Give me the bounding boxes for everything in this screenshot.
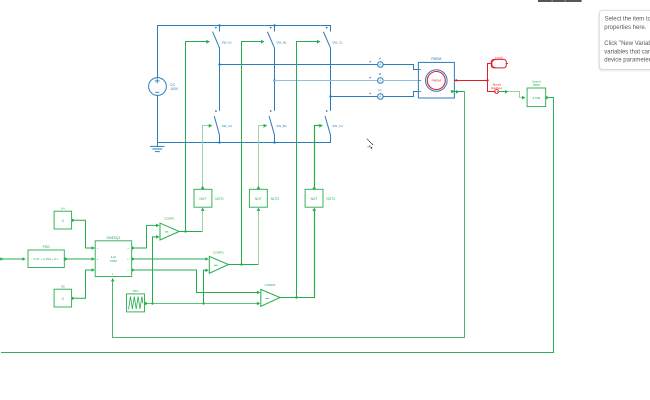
wire: K5 to sine block pin c (75, 270, 91, 298)
svg-text:NOT3: NOT3 (326, 197, 335, 201)
arrow: into NOT3 (312, 208, 316, 211)
wire: carrier line (148, 303, 256, 305)
node: carrier to COMP1 (151, 302, 153, 304)
switch SW_C4 (325, 110, 330, 142)
svg-text:SW_A1: SW_A1 (222, 40, 233, 44)
wire: COMP3 to NOT3 input (314, 211, 316, 297)
wire: top DC bus (158, 25, 331, 27)
svg-text:K5: K5 (61, 285, 65, 289)
wire: COMP2 up to SW_B1 gate (242, 42, 262, 265)
arrow: into COMP3 minus (257, 302, 260, 306)
svg-text:TRI1: TRI1 (132, 289, 139, 293)
wire: PMSM position output (454, 91, 465, 93)
svg-text:COMP2: COMP2 (213, 251, 224, 255)
arrow: SW_C4 gate (319, 124, 323, 128)
UI: tooltip text (604, 17, 650, 64)
svg-text:SW_C1: SW_C1 (332, 40, 343, 44)
arrow: K4 output (72, 219, 75, 223)
arrow: into COMP1 minus (156, 235, 159, 239)
svg-text:IA: IA (379, 56, 382, 60)
UI: tooltip panel shadow (598, 12, 650, 72)
svg-text:A: A (379, 79, 381, 83)
wire: K4 to sine block pin a (75, 220, 91, 248)
wire: phase A to sensor (220, 64, 378, 66)
svg-text:NOT1: NOT1 (215, 197, 224, 201)
svg-text:COMP3: COMP3 (265, 283, 276, 287)
controller PID1 (28, 250, 64, 268)
logic gate NOT2 (249, 189, 267, 207)
arrow: SW_A1 gate (206, 40, 210, 44)
node: carrier to COMP2 (202, 302, 204, 304)
wire: shaft up to load (488, 64, 492, 81)
UI: mouse cursor (367, 139, 373, 149)
node C phase junction (329, 95, 331, 97)
arrow: into sine block pin c (92, 268, 95, 272)
logic gate NOT3 (305, 189, 323, 207)
wire: carrier up to COMP1 minus (153, 237, 156, 304)
wire: COMP3 output (280, 297, 315, 299)
arrow: into COMP2 minus (205, 269, 208, 273)
wire: to speed RPM gain (light) (508, 92, 522, 98)
svg-text:0.01 + 0.15/s + 0.1: 0.01 + 0.15/s + 0.1 (34, 257, 59, 261)
wire: carrier up to COMP2 minus (204, 270, 206, 303)
wire: PMSM shaft to load (red) (454, 80, 487, 82)
arrow: SW_C1 gate (317, 40, 321, 44)
constant block K4 (54, 211, 72, 229)
svg-text:COMP1: COMP1 (164, 217, 175, 221)
motor PMSM inner circle (427, 72, 445, 90)
wire: COMP2 output (229, 264, 259, 266)
svg-text:PWM: PWM (110, 259, 118, 263)
wire: shaft down to speed sensor (488, 81, 495, 92)
comparator COMP3 (261, 289, 280, 306)
arrow: into sine block pin b (92, 257, 95, 261)
three-phase sine block SINESQ1 (95, 241, 132, 277)
wire: out b to COMP2 plus (135, 258, 205, 260)
wire: COMP1 output (179, 231, 202, 233)
node: top bus phase B junction (273, 24, 275, 26)
node: COMP1 out junction (184, 230, 186, 232)
switch SW_A4 (214, 110, 219, 142)
node A phase junction (218, 63, 220, 65)
svg-text:SW_C4: SW_C4 (332, 124, 343, 128)
arrow: SW_B4 gate (264, 124, 268, 128)
arrow: into sine block pin a (92, 246, 95, 250)
wire: DC+ to top bus (157, 26, 159, 78)
comparator COMP2 (209, 256, 228, 273)
arrow: SW_A4 gate (209, 124, 213, 128)
arrow: NOT1 output (201, 186, 205, 189)
arrow: into NOT2 (257, 208, 261, 211)
arrow: sine out b (132, 257, 135, 261)
wire: COMP3 up to SW_C1 gate (297, 42, 317, 298)
label Speed Rad/sec (491, 83, 503, 91)
svg-text:K4: K4 (61, 207, 65, 211)
wire: sensor IB to PMSM pin b (light) (383, 80, 418, 82)
node B phase junction (273, 79, 275, 81)
arrow: into gain block (522, 96, 525, 100)
wire: COMP1 to NOT1 input (202, 211, 204, 231)
wire: phase C to sensor (331, 96, 378, 98)
wire: bottom DC bus (158, 142, 331, 144)
svg-text:9.549: 9.549 (533, 96, 541, 100)
svg-text:SINESQ1: SINESQ1 (106, 236, 120, 240)
arrow: NOT3 output (312, 186, 316, 189)
wire: speed feedback down and across bottom (2, 98, 554, 353)
arrow: into PID (22, 257, 25, 261)
svg-text:NOT: NOT (311, 197, 318, 201)
svg-text:100V: 100V (170, 87, 179, 91)
svg-text:PMSM: PMSM (431, 57, 441, 61)
svg-text:Rad/sec: Rad/sec (491, 86, 503, 90)
wire: DC- to bottom bus (157, 95, 159, 142)
motor PMSM1 block (418, 62, 454, 98)
logic gate NOT1 (194, 189, 212, 207)
arrow: position into sine block (111, 278, 115, 281)
node: COMP3 out junction (295, 296, 297, 298)
wire: phase B to sensor (light) (275, 80, 378, 82)
node: COMP2 out junction (240, 263, 242, 265)
svg-text:IB: IB (379, 72, 382, 76)
wire: speed reference input (0, 258, 22, 260)
switch SW_B1 (268, 26, 275, 111)
svg-text:NOT: NOT (255, 197, 262, 201)
svg-text:Select the item to edit its: Select the item to edit its (605, 17, 650, 23)
svg-text:0: 0 (62, 297, 64, 301)
DC voltage source VDC1 (149, 78, 167, 96)
wire: sensor IA to PMSM pin a (383, 65, 418, 70)
svg-text:PMSM: PMSM (432, 79, 442, 83)
UI: tooltip panel (599, 10, 650, 69)
current sensor IB (370, 77, 384, 83)
arrow: sine out c (132, 268, 135, 272)
constant block K5 (54, 289, 72, 307)
arrow: into COMP3 plus (257, 291, 260, 295)
wire: out a to COMP1 plus (135, 225, 156, 248)
wire: COMP2 to NOT2 input (258, 211, 260, 264)
svg-text:0: 0 (62, 219, 64, 223)
node: top bus phase A junction (218, 24, 220, 26)
arrow: into COMP1 plus (156, 224, 159, 228)
wire: NOT1 up to SW_A4 gate (203, 126, 209, 186)
arrow: into COMP2 plus (205, 257, 208, 261)
UI: toolbar fragment top (538, 0, 582, 2)
current sensor IC (370, 93, 384, 100)
arrow: speed signal (505, 90, 508, 94)
svg-text:NOT: NOT (200, 197, 207, 201)
svg-text:IC: IC (379, 88, 382, 92)
svg-text:variables that can be used in: variables that can be used in (604, 50, 650, 56)
svg-text:SW_B4: SW_B4 (276, 124, 287, 128)
svg-text:A: A (379, 63, 381, 67)
ground (151, 143, 164, 152)
node: bottom bus phase A junction (218, 141, 220, 143)
svg-text:properties here.: properties here. (604, 25, 646, 31)
wire: out c to COMP3 plus (135, 270, 256, 293)
triangle carrier source TRI1 (127, 294, 145, 312)
switch SW_A1 (213, 26, 220, 111)
speed sensor W1 (495, 89, 499, 93)
node: bottom bus phase B junction (273, 141, 275, 143)
arrow: position signal (456, 90, 459, 94)
value label DC 100V (170, 83, 179, 91)
wire: sensor IC to PMSM pin c (383, 92, 418, 97)
gain block Speed RPM (9.549) (527, 88, 546, 107)
svg-text:RPM: RPM (533, 83, 540, 87)
arrow: NOT2 output (257, 186, 261, 189)
mechanical load Load1 (491, 59, 507, 68)
current sensor IA (370, 61, 384, 67)
switch SW_C1 (324, 26, 331, 111)
node: shaft junction (486, 79, 488, 81)
arrow: at left edge (0, 257, 3, 261)
pin: PMSM speed output marker (451, 90, 453, 92)
wire: NOT2 up to SW_B4 gate (259, 126, 264, 186)
wire: position feedback down, across, up to sine block (113, 92, 465, 338)
arrow: shaft output (456, 79, 459, 82)
arrow: K5 output (72, 297, 75, 301)
svg-text:PID1: PID1 (43, 245, 50, 249)
arrow: into NOT1 (201, 208, 205, 211)
arrow: gain output (546, 96, 549, 100)
arrow: sine out a (132, 246, 135, 250)
svg-text:Click "New Variable" to add: Click "New Variable" to add (604, 41, 650, 47)
svg-text:NOT2: NOT2 (271, 197, 280, 201)
arrow: SW_B1 gate (261, 40, 264, 44)
switch SW_B4 (269, 110, 274, 142)
arrow: TRI1 output (145, 302, 148, 306)
waveform inside TRI1 (129, 297, 143, 310)
pin labels sine block (97, 248, 130, 276)
wire: PID output (64, 258, 91, 260)
comparator COMP1 (160, 223, 179, 240)
wire: COMP1 up to SW_A1 gate (186, 42, 207, 232)
svg-text:A: A (379, 94, 381, 98)
arrow: PID output (65, 257, 68, 261)
svg-text:SW_A4: SW_A4 (222, 124, 233, 128)
wire: NOT3 up to SW_C4 gate (315, 126, 320, 186)
svg-text:device parameters.: device parameters. (604, 58, 650, 64)
svg-text:Load1: Load1 (495, 55, 504, 59)
wire: speed sensor output (499, 91, 505, 93)
svg-text:SW_B1: SW_B1 (276, 40, 287, 44)
